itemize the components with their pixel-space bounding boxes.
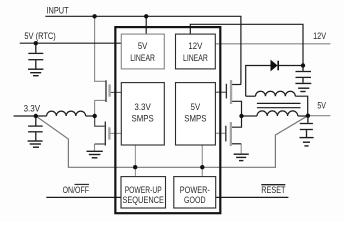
svg-text:5V: 5V bbox=[317, 101, 326, 112]
svg-text:GOOD: GOOD bbox=[184, 195, 206, 206]
svg-text:LINEAR: LINEAR bbox=[183, 53, 208, 64]
svg-text:SEQUENCE: SEQUENCE bbox=[122, 195, 164, 206]
svg-text:5V: 5V bbox=[138, 41, 148, 52]
svg-text:3.3V: 3.3V bbox=[134, 102, 151, 113]
svg-text:5V: 5V bbox=[191, 102, 201, 113]
svg-text:ON/OFF: ON/OFF bbox=[63, 185, 89, 196]
svg-text:INPUT: INPUT bbox=[47, 5, 69, 16]
svg-text:RESET: RESET bbox=[261, 185, 285, 196]
svg-text:3.3V: 3.3V bbox=[24, 103, 41, 114]
svg-text:12V: 12V bbox=[313, 31, 326, 42]
svg-text:12V: 12V bbox=[188, 41, 202, 52]
svg-text:5V (RTC): 5V (RTC) bbox=[24, 31, 55, 42]
svg-text:SMPS: SMPS bbox=[132, 114, 154, 125]
svg-text:SMPS: SMPS bbox=[184, 114, 206, 125]
svg-text:LINEAR: LINEAR bbox=[130, 53, 155, 64]
